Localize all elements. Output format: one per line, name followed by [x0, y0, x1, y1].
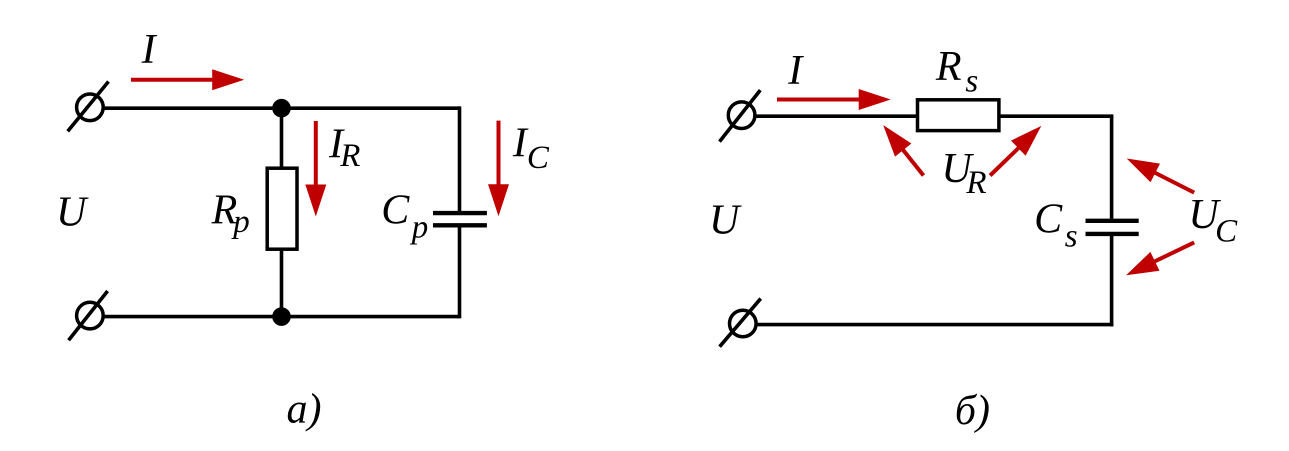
- resistor Rs: [918, 100, 999, 131]
- wire bottom (circuit a): [103, 315, 460, 319]
- node junction bottom (circuit a): [272, 307, 291, 326]
- svg-text:p: p: [231, 204, 250, 240]
- wire top-left segment (circuit b): [755, 114, 917, 118]
- current arrow I (circuit a): [131, 69, 244, 90]
- resistor Rp: [267, 168, 297, 249]
- svg-text:s: s: [1065, 218, 1078, 254]
- voltage arrow UC upper: [1127, 159, 1195, 193]
- label Rp: [211, 188, 250, 240]
- svg-text:U: U: [56, 190, 89, 236]
- label Cs: [1034, 196, 1078, 254]
- svg-text:C: C: [527, 140, 550, 176]
- terminal bottom-left (circuit b): [720, 299, 761, 347]
- capacitor Cs: [1086, 221, 1139, 234]
- svg-text:R: R: [935, 44, 962, 90]
- svg-text:I: I: [141, 27, 158, 73]
- wire resistor branch upper: [280, 108, 284, 168]
- wire right branch upper (circuit b): [1110, 116, 1114, 218]
- current arrow IC: [488, 121, 509, 217]
- svg-text:C: C: [1034, 196, 1063, 242]
- wire resistor branch lower: [280, 249, 284, 317]
- wire right branch lower (circuit b): [1110, 236, 1114, 327]
- svg-text:U: U: [709, 198, 742, 244]
- label Rs: [935, 44, 978, 100]
- label IC: [512, 121, 550, 176]
- wire top (circuit a): [103, 106, 460, 110]
- terminal top-left (circuit a): [68, 82, 109, 132]
- wire capacitor branch lower (circuit a): [458, 227, 462, 318]
- svg-text:R: R: [339, 138, 360, 174]
- svg-text:I: I: [787, 48, 804, 94]
- terminal top-left (circuit b): [720, 90, 761, 142]
- voltage arrow UC lower: [1126, 242, 1194, 275]
- current arrow I (circuit b): [777, 89, 891, 110]
- wire capacitor branch upper (circuit a): [458, 106, 462, 211]
- svg-text:а): а): [287, 386, 322, 432]
- svg-text:p: p: [410, 209, 429, 245]
- wire top-right segment (circuit b): [999, 114, 1113, 118]
- terminal bottom-left (circuit a): [69, 291, 108, 340]
- label UC: [1188, 192, 1238, 250]
- label Cp: [381, 187, 428, 245]
- svg-text:C: C: [1215, 214, 1238, 250]
- voltage arrow UR right: [990, 126, 1041, 176]
- svg-text:s: s: [965, 64, 978, 100]
- label IR: [328, 121, 360, 174]
- svg-text:R: R: [965, 165, 986, 201]
- voltage arrow UR left: [883, 125, 923, 175]
- svg-text:C: C: [381, 187, 410, 233]
- capacitor Cp: [433, 213, 487, 225]
- wire bottom (circuit b): [756, 323, 1113, 327]
- label UR: [941, 146, 986, 201]
- current arrow IR: [305, 121, 326, 217]
- node junction top (circuit a): [272, 99, 291, 118]
- svg-text:б): б): [955, 388, 990, 434]
